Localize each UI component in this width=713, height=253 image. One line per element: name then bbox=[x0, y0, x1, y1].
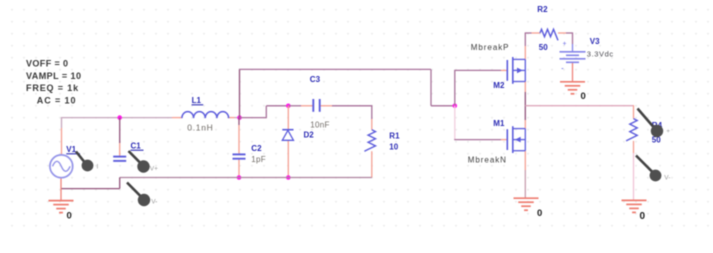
dc source V3 bbox=[560, 40, 586, 72]
svg-text:V-: V- bbox=[664, 175, 670, 182]
wire node A up to top bypass bbox=[239, 69, 241, 118]
svg-text:0.1nH: 0.1nH bbox=[187, 123, 213, 133]
svg-text:D2: D2 bbox=[304, 131, 315, 140]
current probe I at V1 bbox=[76, 152, 99, 172]
capacitor C3 bbox=[313, 99, 319, 112]
wire V1 top to L1 bbox=[61, 118, 182, 155]
wire D2 node to C3 bbox=[288, 105, 312, 107]
svg-text:0: 0 bbox=[537, 208, 542, 219]
wire node A step to D2 node bbox=[240, 106, 289, 118]
svg-text:C1: C1 bbox=[131, 142, 142, 151]
wire gate bus vertical bbox=[454, 70, 456, 139]
label R4 bbox=[652, 121, 663, 130]
wire L1 to node A bbox=[229, 117, 240, 119]
wire M2 source up to R2 bbox=[525, 33, 532, 59]
voltage probe V- below C1 bbox=[127, 183, 157, 207]
node gate bus junction bbox=[453, 104, 458, 109]
svg-text:50: 50 bbox=[539, 43, 548, 52]
wire top bypass run bbox=[239, 68, 431, 70]
wire bypass down jog bbox=[430, 69, 432, 105]
svg-text:FREQ = 1k: FREQ = 1k bbox=[26, 83, 79, 93]
wire C1 branch bbox=[119, 118, 121, 157]
wire C2 branch bottom bbox=[238, 159, 240, 178]
diode D2 bbox=[282, 130, 293, 141]
resistor R2 bbox=[540, 29, 558, 40]
wire jog to gate bus bbox=[431, 105, 455, 107]
svg-text:R2: R2 bbox=[537, 5, 548, 14]
resistor R1 bbox=[364, 130, 375, 151]
node A junction (L1 out) bbox=[237, 115, 242, 120]
value 10nF bbox=[310, 120, 329, 129]
svg-text:+: + bbox=[666, 128, 670, 135]
value 50 (R2) bbox=[539, 43, 548, 52]
wire output to R4 bbox=[525, 105, 633, 107]
svg-text:3.3Vdc: 3.3Vdc bbox=[587, 49, 614, 58]
svg-text:C3: C3 bbox=[310, 75, 321, 84]
svg-text:10nF: 10nF bbox=[310, 120, 329, 129]
wire M1 gate bbox=[454, 139, 507, 141]
voltage probe V+ at C1 bbox=[129, 151, 159, 173]
wire R4 bottom lead to ground bbox=[633, 141, 635, 200]
svg-text:V+: V+ bbox=[150, 166, 158, 173]
svg-text:M1: M1 bbox=[493, 119, 505, 128]
svg-text:V3: V3 bbox=[590, 37, 600, 46]
capacitor C2 bbox=[233, 154, 246, 158]
svg-text:AC = 10: AC = 10 bbox=[37, 96, 77, 106]
value 3.3Vdc bbox=[587, 49, 614, 58]
wire R4 top lead bbox=[633, 105, 635, 118]
label MbreakN bbox=[468, 155, 507, 164]
ground 0 under V3 bbox=[560, 82, 586, 102]
svg-text:L1: L1 bbox=[192, 96, 202, 105]
svg-text:VOFF = 0: VOFF = 0 bbox=[26, 59, 68, 69]
wire C3 to R1 top bbox=[320, 105, 372, 129]
svg-text:+: + bbox=[563, 40, 567, 47]
resistor R4 bbox=[626, 119, 637, 141]
label MbreakP bbox=[471, 43, 510, 52]
transistor M1 MbreakN bbox=[507, 126, 525, 153]
label D2 bbox=[304, 131, 315, 140]
wire bottom rail left step bbox=[61, 178, 120, 189]
label M1 bbox=[493, 119, 505, 128]
node C2 bottom junction bbox=[237, 175, 242, 180]
label R2 bbox=[537, 5, 548, 14]
inductor L1 bbox=[182, 112, 229, 118]
wire C2 branch top bbox=[238, 118, 240, 155]
value 0.1nH bbox=[187, 123, 213, 133]
wire R2 leads bbox=[532, 32, 573, 34]
value 10 bbox=[389, 142, 398, 151]
ground 0 under V1 bbox=[49, 201, 74, 222]
svg-text:M2: M2 bbox=[493, 81, 505, 90]
wire V1 bottom to ground bbox=[60, 178, 62, 200]
wire R1 bottom lead bbox=[371, 151, 373, 177]
label C2 bbox=[251, 144, 262, 153]
label M2 bbox=[493, 81, 505, 90]
wire bottom rail bbox=[120, 177, 372, 179]
wire D2 top lead bbox=[287, 106, 289, 130]
node D2 top junction bbox=[286, 104, 291, 109]
voltage probe V+ at R4 bbox=[638, 109, 671, 138]
svg-text:0: 0 bbox=[640, 211, 646, 222]
transistor M2 MbreakP bbox=[507, 57, 525, 84]
svg-text:10: 10 bbox=[389, 142, 398, 151]
label L1 bbox=[192, 96, 204, 105]
label C3 bbox=[310, 75, 321, 84]
wire V3 top lead bbox=[572, 32, 574, 51]
svg-text:1pF: 1pF bbox=[251, 155, 266, 164]
svg-text:MbreakP: MbreakP bbox=[471, 43, 510, 52]
node C1 top junction bbox=[117, 115, 122, 120]
label V3 bbox=[590, 37, 600, 46]
value 1pF bbox=[251, 155, 266, 164]
label R1 bbox=[389, 132, 400, 141]
label V1 bbox=[66, 145, 80, 154]
node D2 bottom junction bbox=[286, 175, 291, 180]
voltage probe V- at R4 bbox=[636, 156, 670, 182]
svg-text:C2: C2 bbox=[251, 144, 262, 153]
wire M1 source to ground bbox=[524, 151, 526, 198]
svg-text:MbreakN: MbreakN bbox=[468, 155, 507, 164]
svg-text:0: 0 bbox=[67, 210, 72, 221]
svg-text:V-: V- bbox=[151, 199, 157, 206]
label C1 bbox=[131, 142, 144, 151]
svg-text:V1: V1 bbox=[66, 145, 76, 154]
svg-text:0: 0 bbox=[581, 91, 586, 102]
voltage source V1 bbox=[50, 155, 73, 178]
svg-text:R1: R1 bbox=[389, 132, 400, 141]
wire drain join M2-M1 bbox=[524, 82, 526, 129]
svg-text:VAMPL = 10: VAMPL = 10 bbox=[26, 71, 81, 81]
ground 0 under M1 bbox=[514, 198, 543, 219]
ground 0 under R4 bbox=[622, 200, 647, 222]
V1 source parameters text bbox=[26, 59, 81, 106]
capacitor C1 bbox=[113, 157, 126, 161]
wire V3 bottom lead to ground bbox=[572, 63, 574, 82]
value 50 (R4) bbox=[652, 135, 661, 144]
wire D2 bottom lead bbox=[287, 141, 289, 178]
svg-text:I: I bbox=[97, 164, 99, 171]
wire M2 gate bbox=[454, 69, 507, 71]
